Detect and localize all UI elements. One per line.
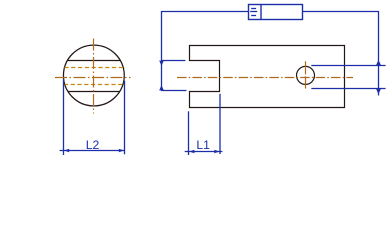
horizontal centerline right view <box>177 77 353 79</box>
L2 dimension line <box>60 150 125 152</box>
slot top extension segment <box>162 60 186 62</box>
hole circle <box>297 66 315 84</box>
leader horizontal left segment <box>161 11 249 13</box>
vertical centerline <box>93 39 95 114</box>
L1 arrow left <box>189 150 194 153</box>
slot bottom edge chord <box>68 91 120 93</box>
symmetry symbol middle line <box>250 11 257 13</box>
L1 dimension line <box>185 151 223 153</box>
symmetry symbol top line <box>251 8 256 10</box>
L1 extension line left <box>188 111 190 155</box>
leader horizontal right segment <box>302 11 379 13</box>
L1 arrow right <box>214 150 219 153</box>
symmetry symbol bottom line <box>251 15 256 17</box>
hole vertical crosshair centerline <box>305 61 307 88</box>
cylinder outline circle <box>63 45 124 106</box>
dimension/leader vertical line <box>378 12 380 96</box>
arrow below bottom extension <box>376 88 381 94</box>
hole bottom extension line <box>311 88 385 90</box>
L2 extension line right <box>124 81 126 155</box>
slot bottom extension segment <box>162 90 187 92</box>
svg-text:L2: L2 <box>86 138 100 152</box>
feature control frame box <box>249 5 303 20</box>
slot top edge chord <box>67 60 120 62</box>
part outline with clevis slot <box>190 46 345 108</box>
horizontal centerline <box>55 77 131 79</box>
arrow at slot bottom <box>159 85 164 90</box>
frame divider <box>260 5 262 20</box>
hidden line hole bottom <box>65 84 123 86</box>
L2 arrow right <box>119 149 124 152</box>
dimension/leader vertical line <box>161 12 163 92</box>
hidden line hole top <box>64 67 123 69</box>
L1 extension line right <box>219 94 221 154</box>
L2 extension line left <box>63 79 65 155</box>
arrow at slot top <box>159 61 164 66</box>
hole top extension line <box>311 65 385 67</box>
L2 arrow left <box>64 149 69 152</box>
svg-text:L1: L1 <box>196 138 210 152</box>
arrow above top extension <box>376 60 381 66</box>
